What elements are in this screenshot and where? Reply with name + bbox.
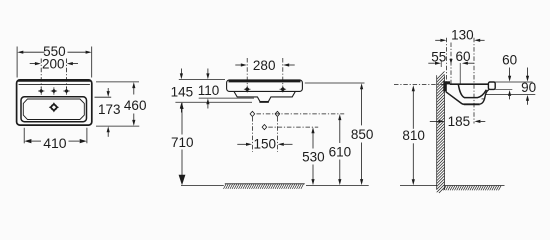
floor line right (front view) bbox=[306, 185, 369, 187]
dim 410: extension lines bbox=[24, 128, 87, 144]
dim 60 left: right extension line bbox=[459, 63, 461, 84]
dim 150: arrows bbox=[237, 143, 246, 145]
dim 550: extension lines bbox=[17, 47, 92, 78]
svg-text:710: 710 bbox=[171, 135, 194, 150]
dim 810: dimension line and arrows bbox=[412, 91, 414, 129]
basin under-slant to drain (side) bbox=[446, 92, 464, 105]
dim 55/60: left arrow bbox=[428, 62, 435, 64]
bowl outer rim (plan) bbox=[21, 97, 87, 122]
dim 460: arrows bbox=[132, 82, 135, 88]
dim 55/60: right arrow bbox=[467, 62, 473, 64]
svg-text:60: 60 bbox=[502, 53, 517, 68]
drain right closure (side) bbox=[480, 90, 489, 104]
basin front rim bump (side) bbox=[488, 82, 495, 89]
dim 550: arrows bbox=[17, 51, 23, 54]
svg-text:173: 173 bbox=[98, 102, 121, 117]
svg-text:460: 460 bbox=[124, 98, 147, 113]
bowl inner edge with bevel corners (plan) bbox=[23, 99, 84, 120]
dim 173: extension line top bbox=[95, 96, 112, 98]
drain centerline (vertical dash-dot) bbox=[473, 38, 475, 124]
dim 200: centerline extensions bbox=[41, 59, 66, 89]
floor hatched band (side view) bbox=[445, 185, 505, 187]
extension line C (apron bottom, side) bbox=[486, 94, 536, 96]
extension line B (rim bottom, side) bbox=[495, 89, 512, 91]
floor hatched band (front view) bbox=[225, 183, 305, 185]
floor line at wall base (left stub) bbox=[400, 185, 437, 187]
dim 460: extension lines bbox=[96, 82, 139, 126]
dim 810: fixing height centerline bbox=[394, 83, 446, 85]
dim 110: arrows bbox=[207, 69, 209, 74]
svg-text:530: 530 bbox=[302, 150, 325, 165]
svg-text:185: 185 bbox=[448, 114, 471, 129]
dim 145: arrows bbox=[180, 69, 182, 74]
dim 55: left extension line bbox=[440, 60, 442, 67]
dim 90: arrows bbox=[527, 68, 529, 77]
apron under edge (side) bbox=[482, 98, 486, 100]
svg-text:850: 850 bbox=[351, 127, 374, 142]
svg-text:90: 90 bbox=[521, 80, 536, 95]
faucet marker right (front) bbox=[280, 86, 287, 93]
dim 710: dimension line and arrows bbox=[181, 103, 183, 135]
dim 173: arrows bbox=[107, 88, 109, 92]
basin lower tiers outline (front) bbox=[234, 91, 296, 102]
drain horizontal centerline bbox=[268, 126, 318, 128]
dim 200: arrows bbox=[30, 63, 36, 65]
basin notch thick bottom (front) bbox=[259, 101, 268, 103]
wall fixing bracket (side) bbox=[443, 81, 447, 91]
svg-text:200: 200 bbox=[42, 56, 65, 71]
faucet hole marker center (plan) bbox=[51, 87, 57, 95]
basin thick top edge (front) bbox=[229, 80, 301, 82]
wall face centerline (vertical dash-dot) bbox=[446, 38, 448, 81]
drain hole diamond center bbox=[262, 125, 267, 130]
wall hatch strokes bbox=[437, 71, 445, 193]
svg-text:110: 110 bbox=[198, 83, 220, 98]
fixing hole diamond left bbox=[250, 111, 255, 116]
drain symbol (plan) bbox=[49, 102, 59, 112]
faucet hole marker right (plan) bbox=[63, 87, 69, 95]
svg-text:150: 150 bbox=[254, 136, 277, 151]
fixing hole diamond right bbox=[275, 111, 280, 116]
svg-text:410: 410 bbox=[43, 135, 67, 151]
basin outer rect (plan) bbox=[17, 80, 92, 125]
svg-text:610: 610 bbox=[329, 144, 352, 159]
dim 130: arrows bbox=[435, 39, 441, 41]
faucet hole marker left (plan) bbox=[38, 87, 44, 95]
dim 850: top extension line bbox=[305, 82, 365, 84]
svg-text:280: 280 bbox=[253, 58, 276, 73]
dim 280: centerline extensions bbox=[247, 58, 283, 86]
dim 410: arrows bbox=[24, 139, 31, 143]
dim 185: arrows bbox=[430, 120, 439, 122]
dim 280: arrows bbox=[235, 64, 241, 66]
svg-text:145: 145 bbox=[171, 84, 194, 99]
dim 60 right: arrows bbox=[509, 68, 511, 77]
deck inner line (plan) bbox=[19, 83, 90, 85]
dim 610: dimension line and arrows bbox=[339, 120, 341, 144]
dim 150: centerline extensions bbox=[252, 117, 277, 152]
drain trap bottom (side) bbox=[464, 103, 480, 105]
extension line A (rim top, side) bbox=[490, 81, 532, 83]
basin thick top edge (plan) bbox=[18, 79, 90, 81]
svg-text:810: 810 bbox=[402, 128, 425, 143]
dim 110: bottom extension line bbox=[199, 97, 254, 99]
svg-text:55: 55 bbox=[431, 49, 446, 64]
dim 530: dimension line and arrows bbox=[312, 133, 314, 149]
tap centerline (vertical dash-dot) bbox=[450, 43, 452, 86]
faucet marker left (front) bbox=[244, 86, 251, 93]
dim 145/110: top extension line bbox=[179, 79, 225, 81]
dim 145: bottom extension line bbox=[175, 101, 252, 103]
basin deck top line (side) bbox=[450, 83, 489, 85]
svg-text:130: 130 bbox=[451, 27, 474, 42]
basin top bar (front) bbox=[227, 80, 303, 92]
fixing holes horizontal centerline bbox=[257, 113, 345, 115]
wall section hatched band bbox=[437, 75, 445, 190]
floor line left (front view) bbox=[181, 185, 224, 187]
dim 850: dimension line and arrows bbox=[361, 89, 363, 126]
svg-text:60: 60 bbox=[455, 49, 470, 64]
basin bowl curve (side) bbox=[458, 84, 486, 97]
dim 55/60: shared middle down-arrow bbox=[449, 59, 452, 64]
